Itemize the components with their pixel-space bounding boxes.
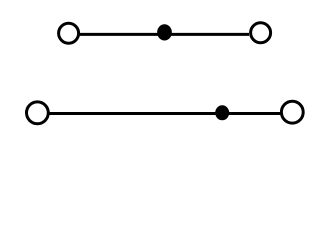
junction node N2 (215, 105, 229, 120)
terminal T1 (59, 23, 79, 43)
junction node N1 (157, 24, 172, 40)
terminal T3 (27, 102, 49, 124)
terminal T2 (251, 23, 271, 43)
wire W1 (79, 33, 249, 36)
wire W2 (49, 112, 282, 115)
terminal T4 (281, 101, 303, 123)
